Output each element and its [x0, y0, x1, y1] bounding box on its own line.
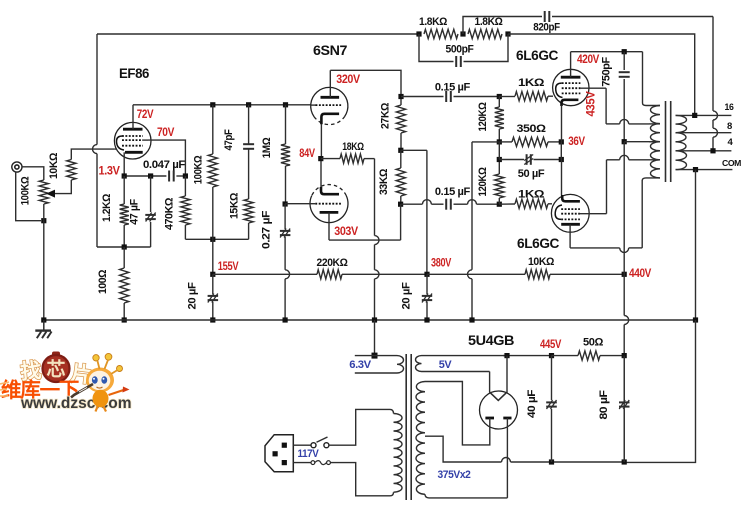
wire rail bottom to cathode network [97, 246, 151, 248]
capacitor C 750pF [619, 52, 630, 142]
label 1KOhm upper [518, 77, 545, 89]
tube 6L6GC V4 lower envelope [551, 194, 589, 232]
capacitor C 80uF [619, 356, 630, 462]
wire 16 ohm tap [676, 114, 732, 116]
svg-text:10KΩ: 10KΩ [48, 152, 60, 179]
resistor R 120Kohm upper [495, 97, 504, 142]
transformer T1 core [406, 354, 411, 500]
label 380V [431, 258, 452, 270]
6SN7a grid lead [311, 104, 316, 106]
tube 6SN7b V2 lower envelope [310, 185, 348, 223]
node 440V [622, 272, 627, 277]
6SN7b plate bar and lead [320, 212, 339, 240]
resistor R 1Kohm upper grid [499, 92, 553, 101]
node tail ground [372, 317, 377, 322]
node NFB-B junction between 1.8K resistors [460, 31, 465, 36]
node 445V [549, 353, 554, 358]
svg-text:EF86: EF86 [119, 66, 150, 81]
node bias upper [497, 139, 502, 144]
6L6a plate bar and lead [561, 52, 581, 77]
node 155V [210, 272, 215, 277]
node 6SN7b grid node [283, 201, 288, 206]
svg-text:COM: COM [722, 158, 741, 168]
wire jack to volume pot [22, 167, 44, 180]
wire lower plate line with hop [570, 180, 642, 252]
wire UL tap upper [649, 123, 660, 125]
label 5V [439, 359, 453, 371]
svg-text:117V: 117V [298, 448, 320, 460]
label 220KOhm [317, 257, 349, 269]
node plate-1M [283, 102, 288, 107]
svg-text:303V: 303V [334, 226, 358, 238]
label 70V [157, 127, 175, 139]
label 1.3V [99, 166, 121, 178]
svg-text:380V: 380V [431, 258, 452, 270]
wire 4 ohm tap [676, 150, 732, 152]
svg-text:1.2KΩ: 1.2KΩ [101, 193, 113, 222]
label 27KOhm [380, 102, 392, 129]
wire HV winding bottom to right plate [425, 494, 507, 498]
wire PSU return line with hop [502, 458, 625, 463]
svg-text:100Ω: 100Ω [97, 269, 109, 294]
label 0.047uF [143, 159, 186, 171]
wire grid node to 6SN7b grid [285, 203, 310, 205]
svg-text:470KΩ: 470KΩ [164, 197, 176, 230]
plug pin bottom [282, 460, 287, 465]
wire 420V plate line [571, 51, 643, 53]
6SN7a cathode bar and lead [321, 114, 339, 159]
wire 380V segment [342, 273, 427, 275]
6L6b grid rows [561, 209, 580, 219]
svg-text:50Ω: 50Ω [583, 337, 604, 349]
svg-text:6L6GC: 6L6GC [517, 236, 560, 251]
node 1.2K bottom [122, 244, 127, 249]
label 445V [540, 339, 562, 351]
wire lower screen to UL tap with hop [607, 155, 652, 213]
label 117V [298, 448, 320, 460]
label 420V [577, 54, 600, 66]
node upper coupling output [497, 94, 502, 99]
label 50uF [518, 168, 545, 180]
svg-text:1.8KΩ: 1.8KΩ [475, 16, 504, 28]
label 1.8KOhm second [475, 16, 504, 28]
resistor R 15Kohm [244, 199, 253, 239]
wire COM down right side [695, 170, 697, 320]
wire 10K to EF86 grid [71, 149, 115, 159]
svg-text:1KΩ: 1KΩ [518, 189, 545, 201]
wire EF86 screen to 0.047uF node [148, 140, 185, 176]
capacitor C 0.15uF upper [401, 91, 499, 102]
label 350Ohm [517, 123, 547, 135]
svg-text:820pF: 820pF [533, 22, 560, 34]
label 0.15uF lower [435, 186, 471, 198]
label 1.8KOhm first [419, 16, 448, 28]
svg-text:50 µF: 50 µF [518, 168, 545, 180]
wire 36V cathode chain [560, 142, 562, 160]
svg-text:750pF: 750pF [601, 57, 613, 87]
wire NFB bus to output transformer 16-ohm tap [508, 34, 695, 113]
EF86 cathode bar and lead [124, 152, 143, 176]
wire jack ground return [16, 172, 41, 221]
svg-text:47 µF: 47 µF [129, 199, 141, 225]
resistor R 1.8Kohm first [424, 29, 458, 38]
svg-text:6L6GC: 6L6GC [516, 48, 559, 63]
svg-text:155V: 155V [218, 261, 239, 273]
capacitor C 47pF [243, 105, 254, 199]
tube EF86 V1 envelope [114, 122, 151, 159]
node 50ohm output [622, 353, 627, 358]
wire 155V segment [213, 273, 317, 275]
wire pot bottom to ground bus [43, 204, 45, 320]
svg-text:8: 8 [727, 121, 732, 132]
5U4GB filament [490, 392, 507, 400]
node cathode-47uF [148, 173, 153, 178]
EF86 plate bar and lead [123, 105, 143, 129]
capacitor C 20uF first filter [208, 274, 219, 320]
wire HV center tap [425, 436, 502, 462]
node 27K-33K midpoint [398, 148, 403, 153]
svg-text:20 µF: 20 µF [401, 282, 413, 310]
svg-text:100KΩ: 100KΩ [193, 155, 205, 184]
resistor R 1Mohm [281, 105, 290, 204]
label 47pF [223, 129, 235, 151]
6SN7a plate bar and lead [321, 70, 340, 97]
svg-text:4: 4 [728, 137, 734, 148]
label 320V [336, 74, 360, 86]
label 303V [334, 226, 358, 238]
label 10KOhm dropper [528, 256, 555, 268]
svg-text:440V: 440V [629, 268, 652, 280]
capacitor C 47uF cathode bypass [145, 176, 156, 247]
node 750pF top [622, 49, 627, 54]
resistor R 100ohm [120, 247, 129, 320]
node COM ground [693, 317, 698, 322]
capacitor C 50uF [499, 154, 561, 165]
label EF86 [119, 66, 150, 81]
node screen-470K [183, 173, 188, 178]
label 6L6GC upper [516, 48, 559, 63]
wire left NFB rail with hop over grid wire [93, 34, 98, 247]
wire fuse to transformer primary bottom [330, 463, 390, 496]
label 435V [586, 91, 598, 117]
5U4GB right plate bar [503, 417, 511, 420]
resistor R 10Kohm grid [67, 160, 76, 181]
wire right plate down [506, 418, 508, 498]
node jack ground junction [41, 218, 46, 223]
label COM [722, 158, 741, 168]
wire left plate to HV winding top [425, 382, 490, 445]
node 40uF bottom [549, 459, 554, 464]
wire 6SN7b plate to lower coupling [329, 204, 401, 240]
wire bias return to ground [468, 142, 500, 320]
label 33KOhm [378, 168, 390, 195]
resistor R 350ohm [499, 137, 561, 146]
svg-text:120KΩ: 120KΩ [477, 102, 489, 132]
transformer T1 6.3V winding [355, 356, 404, 373]
svg-text:16: 16 [725, 102, 734, 113]
resistor R 27Kohm [396, 97, 405, 151]
node 36V upper [559, 139, 564, 144]
svg-text:0.15 µF: 0.15 µF [435, 82, 471, 94]
resistor R 18Kohm tail [321, 154, 375, 163]
capacitor C 20uF second filter [422, 274, 432, 320]
wire NFB bus from left rail to 1.8K network [97, 33, 419, 35]
svg-text:6SN7: 6SN7 [313, 43, 347, 58]
label 440V [629, 268, 652, 280]
node 20uF-2 ground [424, 317, 429, 322]
node 16 tap NFB [692, 113, 697, 118]
fuse F1 [311, 461, 330, 465]
wire 440V rail vertical [624, 142, 629, 462]
label 47uF [129, 199, 141, 225]
node 6.3V winding tap [372, 353, 378, 359]
wire EF86 plate line [133, 104, 311, 106]
svg-text:120KΩ: 120KΩ [477, 167, 489, 197]
transformer T2 primary top lead [643, 52, 661, 106]
transformer T1 HV winding [416, 382, 425, 495]
wire upper screen to UL tap with hop [606, 88, 649, 124]
node 750pF bottom center tap [622, 139, 627, 144]
label 120KOhm upper [477, 102, 489, 132]
6L6b cathode bar and lead [562, 160, 580, 202]
6L6b g-bracket [555, 205, 562, 219]
svg-text:72V: 72V [137, 109, 154, 121]
svg-text:5V: 5V [439, 359, 453, 371]
6L6a cathode bar and lead [562, 100, 579, 142]
svg-text:220KΩ: 220KΩ [317, 257, 349, 269]
resistor R 1.8Kohm second [468, 29, 502, 38]
6SN7b grid lead [310, 203, 315, 205]
wire 820pF to 4-ohm tap with hops [713, 17, 718, 149]
node junction-155V drop [210, 237, 215, 242]
switch S1 [311, 437, 329, 448]
wire screen bottom junction line [185, 238, 248, 240]
wire heater ground to 6.3V winding [374, 320, 376, 356]
capacitor C 40uF [546, 356, 557, 462]
capacitor C 0.27uF [280, 204, 291, 320]
wire switch to transformer primary top [329, 409, 390, 445]
6SN7b grid row [315, 203, 341, 205]
svg-text:1.3V: 1.3V [99, 166, 121, 178]
wire bias middle link [498, 142, 500, 160]
node 33K bottom plate node [398, 202, 403, 207]
node upper coupling input [398, 94, 403, 99]
wire plug to fuse [293, 462, 311, 464]
svg-text:350Ω: 350Ω [517, 123, 547, 135]
svg-text:1KΩ: 1KΩ [518, 77, 545, 89]
node rectifier filament tap [504, 353, 509, 358]
label 1MOhm [261, 137, 273, 158]
node bias lower [497, 157, 502, 162]
svg-text:84V: 84V [299, 148, 315, 160]
node 100ohm ground [122, 317, 127, 322]
node 20uF ground [210, 317, 215, 322]
6SN7b cathode bar and lead [321, 159, 339, 195]
label 375Vx2 [438, 469, 471, 481]
label 84V [299, 148, 315, 160]
resistor R 33Kohm [396, 150, 405, 204]
wire 5V bottom to filament left [489, 372, 491, 393]
capacitor C 0.047uF [169, 171, 185, 182]
label 6L6GC lower [517, 236, 560, 251]
node 84V cathode junction [318, 156, 323, 161]
node ground-left [41, 317, 46, 322]
EF86 grid rows [122, 136, 143, 146]
wire center tap line [624, 141, 660, 143]
svg-text:10KΩ: 10KΩ [528, 256, 555, 268]
svg-text:33KΩ: 33KΩ [378, 168, 390, 195]
svg-text:445V: 445V [540, 339, 562, 351]
label 50Ohm [583, 337, 604, 349]
svg-text:18KΩ: 18KΩ [342, 141, 364, 153]
EF86 g3 tie bracket [117, 136, 125, 150]
svg-text:芯: 芯 [46, 358, 65, 381]
pot wiper arrow [46, 180, 71, 198]
wire 6SN7a plate to upper coupling node [330, 70, 401, 96]
plug pin top [282, 443, 287, 448]
transformer T2 primary bottom lead [642, 178, 660, 181]
wire CT tap [649, 141, 660, 143]
node 4 tap 820pF [710, 148, 715, 153]
wire midpoint to 380V rail [401, 150, 427, 274]
svg-text:40 µF: 40 µF [526, 389, 538, 418]
label 20uF second [401, 282, 413, 310]
transformer T1 5V winding [416, 356, 506, 372]
node NFB-A junction [416, 31, 421, 36]
wire 18K tail down to ground with hops [375, 159, 380, 320]
ground symbol [35, 320, 51, 338]
power plug P1 [265, 435, 293, 472]
wire 10K to 440V rail [550, 273, 624, 275]
label 100KOhm load [193, 155, 205, 184]
svg-text:0.15 µF: 0.15 µF [435, 186, 471, 198]
svg-text:435V: 435V [586, 91, 598, 117]
resistor R 1Kohm lower grid [499, 199, 552, 208]
label 40uF [526, 389, 538, 418]
resistor R 220Kohm [317, 270, 342, 279]
wire cathode node line [124, 175, 166, 177]
label 0.15uF upper [435, 82, 471, 94]
label 5U4GB [468, 333, 515, 348]
label 500pF [446, 44, 475, 56]
svg-text:375Vx2: 375Vx2 [438, 469, 471, 481]
6L6b plate bar and lead [561, 224, 580, 248]
node cathode-1.2K [122, 173, 127, 178]
6L6a grid rows [562, 83, 581, 93]
svg-text:320V: 320V [336, 74, 360, 86]
svg-text:15KΩ: 15KΩ [229, 192, 241, 219]
label 20uF first [187, 282, 199, 310]
resistor R 120Kohm lower [495, 160, 504, 205]
node COM junction [693, 167, 698, 172]
6L6b screen lead [580, 213, 607, 215]
transformer T2 primary winding [650, 106, 660, 178]
tube 6SN7a V2 upper envelope [311, 87, 348, 124]
label 8 [727, 121, 732, 132]
label 6SN7 [313, 43, 347, 58]
label 80uF [598, 390, 610, 420]
label 6.3V [349, 359, 372, 371]
node 36V lower [559, 157, 564, 162]
label 100KOhm pot [20, 176, 32, 205]
wire 8 ohm tap [676, 132, 732, 134]
6L6a g-bracket [556, 83, 563, 97]
svg-text:80 µF: 80 µF [598, 390, 610, 420]
wire plug to switch [293, 444, 311, 446]
transformer T2 core [666, 101, 671, 182]
label 750pF [601, 57, 613, 87]
transformer T2 secondary winding [676, 115, 687, 169]
svg-text:0.27 µF: 0.27 µF [261, 210, 273, 249]
node NFB-C junction [505, 31, 510, 36]
node lower coupling output [497, 202, 502, 207]
resistor R 100Kohm plate load [208, 105, 217, 240]
svg-text:47pF: 47pF [223, 129, 235, 151]
resistor R 1.2Kohm cathode [120, 176, 129, 247]
svg-text:70V: 70V [157, 127, 175, 139]
label 72V [137, 109, 154, 121]
label 470KOhm [164, 197, 176, 230]
transformer T1 primary winding [390, 409, 402, 495]
label 18KOhm [342, 141, 364, 153]
svg-text:1.8KΩ: 1.8KΩ [419, 16, 448, 28]
label 16 [725, 102, 734, 113]
node 380V [424, 272, 429, 277]
node 0.27uF ground [283, 317, 288, 322]
EF86 screen lead [143, 139, 148, 141]
wire filament right lead [506, 356, 508, 393]
svg-text:420V: 420V [577, 54, 600, 66]
svg-text:5U4GB: 5U4GB [468, 333, 515, 348]
label 4 [728, 137, 734, 148]
wire 380V to 10K [427, 273, 525, 275]
label 1KOhm lower [518, 189, 545, 201]
svg-text:100KΩ: 100KΩ [20, 176, 32, 205]
wire COM tap [676, 169, 733, 171]
watermark dzsc logo [0, 352, 132, 413]
label 100Ohm [97, 269, 109, 294]
svg-text:27KΩ: 27KΩ [380, 102, 392, 129]
svg-text:1MΩ: 1MΩ [261, 137, 273, 158]
node 80uF bottom [622, 459, 627, 464]
EF86 grid lead [115, 148, 117, 150]
tube 5U4GB V5 envelope [480, 391, 518, 429]
label 0.27uF [261, 210, 273, 249]
resistor R 470Kohm screen [181, 176, 190, 239]
resistor R 10Kohm dropper [525, 270, 550, 279]
6L6a screen lead [580, 87, 606, 89]
wire right side down to PSU return [624, 320, 695, 462]
node bias ground [469, 317, 474, 322]
node plate-47pF [246, 102, 251, 107]
potentiometer VR 100Kohm [39, 180, 48, 204]
wire UL tap lower [651, 159, 660, 161]
svg-text:20 µF: 20 µF [187, 282, 199, 310]
label 15KOhm [229, 192, 241, 219]
svg-text:36V: 36V [568, 136, 585, 148]
svg-text:www.dzsc.com: www.dzsc.com [20, 395, 132, 412]
wire ground bus [44, 319, 696, 321]
label 820pF [533, 22, 560, 34]
label 155V [218, 261, 239, 273]
resistor R 50ohm [552, 351, 625, 360]
wire junction to 155V node [212, 239, 214, 274]
6SN7a grid row [316, 104, 342, 106]
svg-text:0.047 µF: 0.047 µF [143, 159, 186, 171]
label 1.2KOhm [101, 193, 113, 222]
input jack J1 [12, 162, 22, 172]
capacitor C 0.15uF lower with hops [401, 199, 500, 210]
